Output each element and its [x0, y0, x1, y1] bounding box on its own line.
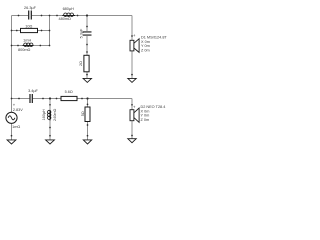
svg-text:480mΩ: 480mΩ [59, 17, 71, 21]
svg-text:2.83V: 2.83V [13, 108, 23, 112]
svg-text:1mΩ: 1mΩ [12, 125, 20, 129]
svg-text:Z 0m: Z 0m [141, 49, 150, 53]
svg-text:1mH: 1mH [23, 38, 31, 42]
svg-text:Z 0m: Z 0m [141, 118, 150, 122]
svg-text:3.4µF: 3.4µF [28, 89, 38, 93]
svg-text:10Ω: 10Ω [25, 24, 32, 28]
svg-text:5.6Ω: 5.6Ω [65, 90, 73, 94]
svg-text:5Ω: 5Ω [81, 111, 85, 116]
svg-text:5.3µF: 5.3µF [79, 28, 83, 38]
svg-text:680µH: 680µH [63, 7, 75, 11]
svg-text:800mΩ: 800mΩ [18, 48, 30, 52]
svg-text:240mΩ: 240mΩ [53, 108, 57, 120]
svg-text:2Ω: 2Ω [79, 61, 83, 66]
svg-text:26.3µF: 26.3µF [24, 6, 37, 10]
svg-text:160µH: 160µH [42, 109, 46, 121]
